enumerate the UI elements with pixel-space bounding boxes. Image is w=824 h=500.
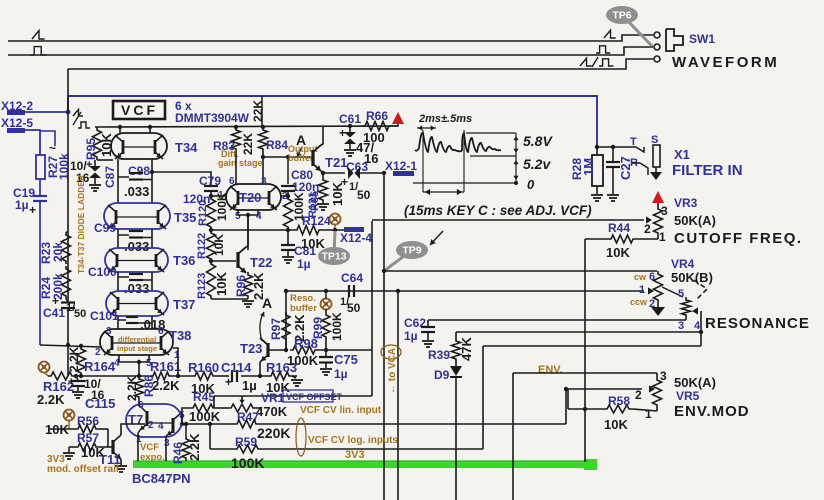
svg-text:10K: 10K bbox=[45, 422, 69, 437]
label 3V3 rail bbox=[345, 449, 365, 461]
svg-text:50K(A): 50K(A) bbox=[674, 213, 716, 228]
transistor pair T37 bbox=[106, 291, 195, 316]
wire T22 base bbox=[209, 259, 236, 263]
svg-text:X12-5: X12-5 bbox=[1, 116, 33, 130]
wire ladder rails 3 bbox=[118, 272, 152, 291]
svg-text:22K: 22K bbox=[251, 100, 265, 122]
ground C27 bbox=[607, 195, 619, 201]
connector X12-4 bbox=[340, 227, 372, 245]
svg-text:3: 3 bbox=[106, 326, 112, 337]
ground R85 bbox=[317, 204, 329, 210]
resistor R98 bbox=[287, 336, 372, 368]
connector X12-1 bbox=[385, 159, 417, 176]
svg-text:TP13: TP13 bbox=[321, 251, 346, 263]
ground C87 bbox=[89, 185, 101, 191]
transistor T21 bbox=[313, 145, 347, 171]
svg-text:6: 6 bbox=[649, 271, 655, 283]
svg-text:buffer: buffer bbox=[288, 153, 314, 163]
svg-text:buffer: buffer bbox=[290, 303, 317, 314]
scope measure bottom bbox=[423, 189, 464, 195]
ground R28 bbox=[591, 195, 603, 201]
svg-text:C87: C87 bbox=[103, 166, 117, 188]
wire reso pin6 bbox=[382, 269, 657, 273]
svg-text:R160: R160 bbox=[188, 360, 219, 375]
svg-text:R44: R44 bbox=[608, 221, 630, 235]
label VCF OFFSET bbox=[283, 390, 343, 402]
svg-text:C41: C41 bbox=[43, 306, 65, 320]
resistor R120 bbox=[197, 192, 229, 230]
transistor T22 bbox=[238, 247, 272, 273]
svg-text:100K: 100K bbox=[231, 455, 264, 471]
svg-text:R39: R39 bbox=[428, 348, 450, 362]
svg-text:R85: R85 bbox=[309, 191, 321, 211]
svg-text:3: 3 bbox=[660, 369, 667, 383]
svg-text:← to VCA: ← to VCA bbox=[387, 348, 398, 394]
resistor R97 bbox=[269, 312, 307, 350]
svg-text:BC847PN: BC847PN bbox=[132, 471, 191, 486]
svg-text:2: 2 bbox=[635, 388, 642, 402]
scope note 2ms bbox=[418, 113, 472, 125]
resistor R56 bbox=[45, 414, 99, 437]
wire R39 line bbox=[456, 330, 703, 334]
potentiometer VR5 bbox=[635, 369, 667, 421]
label BC847PN bbox=[132, 471, 191, 486]
svg-text:10K: 10K bbox=[301, 236, 325, 251]
svg-text:3V3: 3V3 bbox=[345, 449, 365, 461]
capacitor C61 bbox=[339, 112, 378, 166]
label VR5 bbox=[676, 389, 700, 403]
svg-text:VR1: VR1 bbox=[261, 391, 285, 405]
svg-text:T34-T37 DIODE LADDER: T34-T37 DIODE LADDER bbox=[76, 175, 86, 274]
wire ladder rails 2 bbox=[118, 229, 152, 248]
wire left vertical bbox=[67, 69, 69, 302]
svg-text:X1: X1 bbox=[674, 147, 690, 162]
pin 1 T7 bbox=[136, 434, 142, 445]
svg-text:3: 3 bbox=[661, 204, 668, 218]
pin 3 T38 bbox=[106, 326, 112, 337]
svg-text:TP6: TP6 bbox=[612, 10, 631, 22]
transistor pair T38 differential input stage bbox=[100, 328, 191, 355]
ground C115 bbox=[72, 392, 84, 398]
trimpot VR1 bbox=[214, 391, 288, 419]
wire C79 feed bbox=[150, 170, 211, 186]
jack X1 tip contact bbox=[630, 136, 644, 152]
label reso buffer bbox=[290, 293, 317, 314]
resistor R23 bbox=[39, 232, 71, 264]
power rail marker cutoff bbox=[652, 191, 664, 203]
label VCF box bbox=[113, 101, 165, 119]
scope burst 2 bbox=[462, 133, 501, 152]
svg-text:X12-1: X12-1 bbox=[385, 159, 417, 173]
svg-text:C115: C115 bbox=[85, 396, 115, 411]
svg-text:gain stage: gain stage bbox=[218, 158, 263, 168]
diode D9 bbox=[434, 362, 462, 500]
svg-text:2.2K: 2.2K bbox=[67, 346, 81, 372]
capacitor C41 bbox=[43, 294, 86, 345]
resistor R47 bbox=[234, 410, 290, 441]
svg-text:VCF CV lin. input: VCF CV lin. input bbox=[300, 405, 382, 416]
wire blue top rail bbox=[68, 96, 597, 147]
svg-text:T34: T34 bbox=[175, 140, 198, 155]
svg-text:1µ: 1µ bbox=[334, 367, 348, 381]
capacitor C101 bbox=[90, 309, 165, 332]
svg-text:T: T bbox=[630, 136, 637, 148]
svg-text:+: + bbox=[29, 203, 36, 217]
resistor R59 bbox=[231, 435, 264, 471]
svg-text:T36: T36 bbox=[173, 253, 195, 268]
wire T34 stubs bbox=[118, 125, 152, 133]
pin 2 T38 bbox=[95, 347, 101, 358]
wire T11 emitter bbox=[120, 459, 122, 465]
transistor pair T34 bbox=[111, 133, 198, 159]
svg-text:1: 1 bbox=[659, 230, 666, 244]
ground R163 bbox=[291, 380, 303, 386]
label VCF CV log inputs bbox=[308, 435, 398, 446]
svg-text:A: A bbox=[262, 295, 272, 311]
resistor R163 bbox=[258, 360, 297, 395]
pin 1 T20 bbox=[218, 190, 224, 201]
transistor T11 bbox=[99, 435, 121, 467]
wire waveform saw line bbox=[8, 35, 653, 41]
wire VR1 riser bbox=[242, 221, 372, 396]
svg-text:VR4: VR4 bbox=[671, 257, 695, 271]
wire reso pin4 line bbox=[483, 346, 701, 449]
ground R96 bbox=[242, 301, 254, 307]
node R86 rail bbox=[137, 374, 141, 378]
svg-text:1: 1 bbox=[218, 190, 224, 201]
svg-text:4: 4 bbox=[158, 421, 164, 432]
wire waveform pulse line bbox=[8, 47, 653, 55]
pin 1 T38 bbox=[174, 350, 180, 361]
capacitor C99 bbox=[94, 221, 152, 254]
transistor pair T35 bbox=[104, 203, 196, 229]
wire T11 base bbox=[99, 429, 113, 447]
wire R28 rail bbox=[597, 145, 636, 149]
label VR3 bbox=[674, 196, 698, 210]
svg-text:100K: 100K bbox=[330, 312, 344, 341]
svg-text:C99: C99 bbox=[94, 221, 116, 235]
svg-text:2: 2 bbox=[644, 222, 651, 236]
resistor R99 bbox=[311, 309, 344, 350]
scope level 5.2V bbox=[470, 156, 551, 172]
svg-text:R66: R66 bbox=[366, 109, 388, 123]
resistor R24 bbox=[39, 266, 71, 302]
svg-text:2.2K: 2.2K bbox=[37, 392, 65, 407]
svg-text:2: 2 bbox=[95, 347, 101, 358]
svg-text:2.2K: 2.2K bbox=[152, 378, 180, 393]
svg-text:2.2K: 2.2K bbox=[125, 375, 139, 401]
wire env line bbox=[513, 373, 657, 500]
potentiometer VR4 section1 bbox=[630, 271, 665, 316]
svg-text:WAVEFORM: WAVEFORM bbox=[672, 54, 779, 71]
node R28 top bbox=[595, 145, 599, 149]
svg-text:C61: C61 bbox=[339, 112, 361, 126]
svg-text:VR5: VR5 bbox=[676, 389, 700, 403]
potentiometer VR3 bbox=[644, 202, 668, 244]
svg-text:50: 50 bbox=[74, 308, 86, 320]
scope vertical guides bbox=[423, 130, 464, 192]
capacitor C63 bbox=[341, 160, 384, 202]
scope measure top bbox=[417, 125, 436, 130]
svg-text:.033: .033 bbox=[124, 281, 149, 296]
power rail marker +V output bbox=[392, 112, 404, 126]
wire R44-R58 vertical bbox=[584, 239, 586, 462]
wire R45 line bbox=[182, 408, 262, 413]
svg-text:220K: 220K bbox=[257, 425, 290, 441]
resistor R28 bbox=[570, 147, 603, 194]
svg-text:R84: R84 bbox=[266, 138, 288, 152]
svg-text:3: 3 bbox=[164, 438, 170, 449]
resistor R85 bbox=[309, 173, 345, 211]
svg-text:1: 1 bbox=[645, 407, 652, 421]
wire R96-R123 gnd bbox=[211, 298, 248, 300]
capacitor C62 bbox=[404, 316, 435, 343]
svg-text:R96: R96 bbox=[234, 275, 248, 297]
label log bundle bbox=[296, 418, 306, 456]
svg-text:47K: 47K bbox=[459, 337, 474, 361]
svg-text:D9: D9 bbox=[434, 368, 450, 382]
pin 2 T20 bbox=[282, 191, 288, 202]
svg-text:R97: R97 bbox=[269, 318, 283, 340]
resistor R27 bbox=[36, 141, 71, 180]
resistor R46 bbox=[171, 422, 202, 464]
svg-text:T21: T21 bbox=[325, 155, 347, 170]
arrow to TP9 bbox=[430, 231, 443, 245]
wire T38 tail bbox=[119, 355, 149, 376]
label 50K(A) VR3 bbox=[674, 213, 716, 228]
node X12-1 bbox=[382, 171, 386, 175]
svg-text:C98: C98 bbox=[128, 164, 150, 178]
svg-text:R95: R95 bbox=[84, 138, 98, 160]
svg-text:5.2v: 5.2v bbox=[523, 156, 551, 172]
saw glyph left bbox=[32, 31, 45, 39]
transistor pair T20 bbox=[226, 184, 281, 210]
testpoint reso junction bbox=[321, 289, 332, 310]
wire T7 pin1 bbox=[137, 433, 139, 461]
label CUTOFF FREQ bbox=[674, 230, 803, 247]
svg-text:50: 50 bbox=[347, 301, 361, 315]
resistor R161 bbox=[150, 359, 181, 393]
ground T11 bbox=[115, 466, 127, 472]
svg-text:ccw: ccw bbox=[630, 297, 648, 307]
svg-text:22K: 22K bbox=[241, 133, 255, 155]
svg-text:10K: 10K bbox=[604, 417, 628, 432]
transistor T7 right bbox=[147, 413, 181, 436]
wire R56 left bbox=[48, 428, 75, 430]
svg-text:R98: R98 bbox=[294, 336, 318, 351]
scope arrow column bbox=[513, 133, 518, 183]
svg-text:3: 3 bbox=[261, 176, 267, 187]
jack X1 ring contact bbox=[630, 157, 648, 175]
svg-text:DMMT3904W: DMMT3904W bbox=[175, 111, 250, 125]
wire R83 to pin6 bbox=[235, 152, 237, 184]
testpoint R162 in bbox=[39, 362, 50, 377]
svg-text:TP9: TP9 bbox=[402, 245, 421, 257]
wire T21 collector bbox=[313, 126, 323, 152]
pin 2 T7 bbox=[148, 420, 154, 431]
pin 3 T20 bbox=[261, 176, 267, 187]
resistor R122 bbox=[196, 230, 226, 262]
svg-text:1: 1 bbox=[639, 284, 645, 296]
label 50K(B) bbox=[671, 270, 713, 285]
label output buffer bbox=[288, 144, 318, 163]
label 50K(A) VR5 bbox=[674, 375, 716, 390]
svg-text:FILTER IN: FILTER IN bbox=[672, 162, 743, 179]
pin 6 T38 bbox=[158, 326, 164, 337]
capacitor C80 bbox=[281, 155, 319, 196]
node ladder input bbox=[66, 343, 70, 347]
svg-text:R120: R120 bbox=[197, 200, 209, 226]
svg-text:C114: C114 bbox=[221, 360, 252, 375]
resistor R39 bbox=[428, 332, 474, 362]
label X1 bbox=[674, 147, 690, 162]
svg-text:10K: 10K bbox=[214, 272, 229, 296]
label 3V3 mod offset rail bbox=[47, 454, 119, 475]
svg-text:S: S bbox=[651, 134, 658, 146]
svg-text:.033: .033 bbox=[124, 239, 149, 254]
resistor R95 bbox=[84, 127, 114, 160]
resistor R83 bbox=[213, 125, 255, 155]
svg-text:1M: 1M bbox=[581, 158, 596, 176]
label SW1 bbox=[689, 32, 715, 46]
wire R86 to T7 bbox=[139, 400, 140, 406]
svg-text:0: 0 bbox=[527, 177, 535, 192]
svg-text:20k: 20k bbox=[51, 242, 65, 262]
testpoint TP13 bbox=[318, 231, 350, 265]
svg-text:ENV.: ENV. bbox=[538, 364, 563, 376]
scope axis bottom bbox=[413, 181, 518, 185]
wire T20 pin2 bbox=[281, 194, 290, 198]
svg-text:6: 6 bbox=[229, 176, 235, 187]
resistor R124 bbox=[294, 214, 344, 251]
pin 3 T7 bbox=[164, 438, 170, 449]
capacitor C98 bbox=[118, 164, 152, 199]
wire T20 tail bbox=[238, 210, 258, 250]
resistor R123 bbox=[196, 261, 229, 299]
transistor pair T36 bbox=[105, 248, 195, 272]
resistor R45 bbox=[189, 390, 221, 424]
wire ladder rails 1 bbox=[118, 159, 152, 203]
resistor R58 bbox=[568, 394, 657, 432]
svg-text:SW1: SW1 bbox=[689, 32, 715, 46]
resistor R86 bbox=[125, 375, 156, 401]
svg-text:C64: C64 bbox=[341, 271, 363, 285]
net label A T23 bbox=[260, 295, 272, 341]
label FILTER IN bbox=[672, 162, 743, 179]
resistor R44 bbox=[585, 221, 658, 260]
wire X12-1 to VCA bbox=[383, 173, 385, 500]
svg-text:R45: R45 bbox=[193, 390, 215, 404]
pin 6 T7 bbox=[138, 400, 144, 411]
net label A output bbox=[296, 132, 306, 157]
svg-text:100: 100 bbox=[363, 130, 385, 145]
svg-text:4: 4 bbox=[256, 211, 262, 222]
transistor T23 bbox=[240, 338, 286, 376]
capacitor C114 bbox=[221, 360, 257, 393]
label WAVEFORM bbox=[672, 54, 779, 71]
wire y230 rail bbox=[211, 229, 294, 231]
wire cutoff cv bbox=[372, 216, 652, 223]
node C115 bbox=[74, 374, 78, 378]
wire T22 collector bbox=[238, 215, 248, 254]
wire T11 collector bbox=[121, 424, 145, 435]
pin 5 T7 bbox=[179, 410, 185, 421]
svg-text:T35: T35 bbox=[174, 210, 196, 225]
scope level 5.8V bbox=[466, 133, 553, 149]
label 6x DMMT3904W bbox=[175, 99, 250, 125]
pin 4 T20 bbox=[256, 211, 262, 222]
svg-text:1µ: 1µ bbox=[404, 329, 418, 343]
svg-text:mod. offset rail: mod. offset rail bbox=[47, 464, 119, 475]
scope burst 1 bbox=[415, 133, 462, 152]
svg-text:input stage: input stage bbox=[117, 344, 157, 353]
svg-text:C101: C101 bbox=[90, 309, 119, 323]
svg-text:.033: .033 bbox=[124, 184, 149, 199]
svg-text:470K: 470K bbox=[256, 404, 288, 419]
wire T21 emitter bbox=[313, 164, 345, 175]
capacitor C115 bbox=[68, 376, 115, 411]
resistor R162 bbox=[37, 372, 75, 407]
wire VR5 wiper bbox=[568, 389, 642, 409]
svg-text:X12-4: X12-4 bbox=[340, 231, 372, 245]
svg-text:10K: 10K bbox=[212, 234, 226, 256]
wire bottom rail bbox=[75, 375, 297, 377]
svg-text:5.8V: 5.8V bbox=[523, 133, 553, 149]
wire reso buffer corner bbox=[284, 289, 288, 352]
svg-text:VR3: VR3 bbox=[674, 196, 698, 210]
node to VCA 2 bbox=[396, 289, 400, 293]
label VR4 bbox=[671, 257, 695, 271]
svg-text:10K: 10K bbox=[606, 245, 630, 260]
svg-text:R123: R123 bbox=[196, 273, 208, 299]
node C79-R120 bbox=[209, 194, 226, 198]
svg-text:1µ: 1µ bbox=[15, 198, 29, 212]
svg-text:1µ: 1µ bbox=[242, 378, 257, 393]
pin 5 T38 bbox=[146, 358, 152, 369]
svg-text:3: 3 bbox=[678, 320, 684, 332]
svg-text:100K: 100K bbox=[287, 353, 319, 368]
ground C61 bbox=[344, 150, 356, 156]
svg-text:2ms±.5ms: 2ms±.5ms bbox=[418, 113, 472, 125]
power rail 3V3 green bar bbox=[133, 459, 597, 470]
ground R57 bbox=[63, 453, 75, 459]
svg-text:R164: R164 bbox=[84, 359, 116, 374]
node R120-R122 bbox=[209, 228, 213, 232]
resistor R84 bbox=[251, 100, 288, 152]
svg-text:100K: 100K bbox=[189, 409, 221, 424]
wire T7 pin5 node bbox=[181, 413, 182, 424]
svg-text:100k: 100k bbox=[57, 153, 71, 180]
pin 4 T7 bbox=[158, 421, 164, 432]
label to VCA bbox=[381, 345, 401, 394]
capacitor C75 bbox=[319, 350, 358, 381]
capacitor C79 bbox=[183, 174, 221, 206]
pin 4 T38 bbox=[114, 358, 120, 369]
saw glyph right bbox=[604, 30, 616, 38]
testpoint X12-4 junction bbox=[330, 214, 341, 233]
ground C81 bbox=[282, 257, 294, 263]
wire 22K riser bbox=[261, 96, 263, 127]
jack X1 sleeve bbox=[650, 134, 662, 180]
saw+pulse glyph bbox=[580, 57, 613, 67]
testpoint R56 in bbox=[64, 410, 75, 430]
capacitor C100 bbox=[88, 265, 152, 296]
capacitor C64 bbox=[340, 271, 363, 315]
resistor R121 bbox=[284, 192, 320, 230]
resistor R57 bbox=[69, 431, 105, 460]
testpoint TP9 bbox=[384, 241, 428, 271]
svg-text:R46: R46 bbox=[171, 442, 185, 464]
